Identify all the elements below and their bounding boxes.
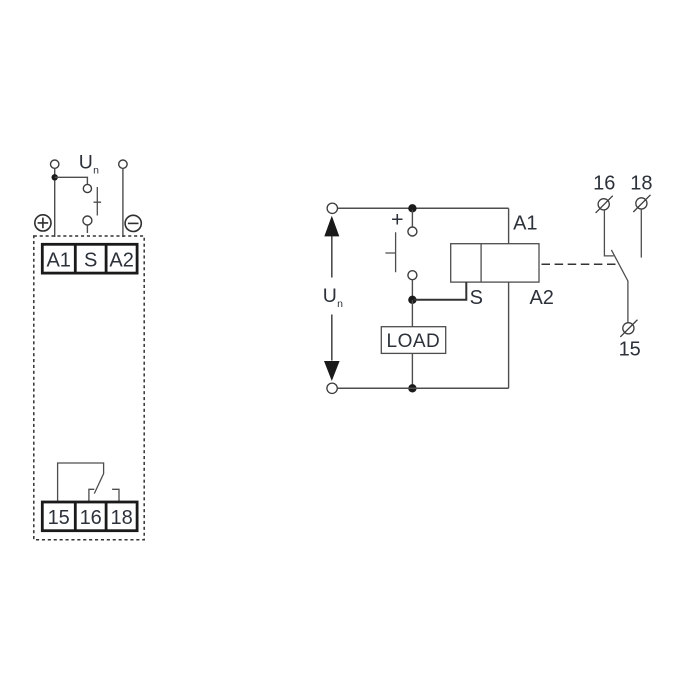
wire contact 18: [640, 209, 642, 258]
svg-text:A1: A1: [46, 249, 70, 271]
wire button to junction: [411, 280, 413, 296]
contact terminal 16 stub: [89, 489, 94, 502]
svg-text:16: 16: [593, 172, 615, 194]
terminal block 15 16 18: [42, 502, 137, 531]
junction dot on left wire: [52, 174, 58, 180]
junction dot S node: [408, 296, 416, 304]
svg-text:U: U: [323, 285, 337, 307]
relay coil box: [451, 244, 539, 282]
svg-text:A2: A2: [529, 287, 553, 309]
terminal symbol 16 (circle slash): [596, 196, 613, 213]
wire: switch S to terminal S: [86, 225, 88, 234]
svg-text:18: 18: [630, 172, 652, 194]
svg-text:n: n: [337, 298, 343, 310]
svg-text:15: 15: [619, 339, 641, 361]
start button upper contact circle: [408, 227, 417, 236]
polarity symbol minus: [125, 215, 141, 231]
LOAD box: [381, 327, 445, 354]
supply terminal circle bottom: [327, 383, 337, 393]
svg-text:S: S: [84, 249, 97, 271]
wire: right supply to A2 terminal: [122, 168, 124, 237]
junction dot top: [408, 204, 416, 212]
wire top rail: [338, 207, 509, 209]
start button lower contact circle: [408, 271, 417, 280]
svg-text:S: S: [470, 287, 483, 309]
svg-text:A1: A1: [513, 212, 537, 234]
arrow Un (voltage arrow): [324, 216, 340, 381]
polarity symbol plus: [35, 215, 51, 231]
contact terminal 18 stub: [112, 489, 119, 502]
svg-text:n: n: [93, 165, 99, 177]
svg-text:U: U: [79, 152, 93, 174]
junction dot bottom: [408, 384, 416, 392]
pushbutton S actuator: [94, 187, 102, 216]
pushbutton S upper contact circle: [83, 184, 91, 192]
svg-text:A2: A2: [109, 249, 133, 271]
contact arm (changeover): [611, 250, 628, 322]
wire A1 drop: [508, 208, 510, 243]
relay contact symbol (internal, common 15): [58, 463, 104, 502]
svg-text:15: 15: [48, 507, 70, 529]
label Un: [79, 152, 99, 177]
svg-text:16: 16: [80, 507, 102, 529]
wire A2 drop: [508, 282, 510, 388]
wire dot to start button: [411, 210, 413, 227]
wire junction to LOAD: [411, 300, 413, 327]
terminal circle top-right (supply -): [119, 160, 127, 168]
terminal circle top-left (supply +): [51, 160, 59, 168]
device outline (dashed): [34, 236, 144, 540]
pushbutton S lower contact circle: [83, 216, 92, 225]
svg-text:18: 18: [110, 507, 132, 529]
wire: branch to switch S: [55, 177, 88, 184]
wire bottom rail: [338, 387, 509, 389]
svg-text:+: +: [391, 208, 404, 232]
wire S pin to junction: [414, 282, 466, 300]
terminal symbol 18 (circle slash): [633, 195, 650, 212]
supply terminal circle top: [327, 203, 337, 213]
wire: left supply to A1 terminal: [54, 168, 56, 237]
terminal block A1 S A2: [42, 244, 137, 273]
start button actuator: [385, 232, 395, 272]
wire LOAD to bottom rail: [411, 353, 413, 388]
svg-text:LOAD: LOAD: [387, 331, 441, 352]
dashed mechanical link coil to contact: [542, 263, 618, 265]
label Un (arrow): [323, 285, 343, 310]
wire contact 16: [604, 210, 613, 256]
terminal symbol 15 (circle slash): [620, 320, 637, 337]
